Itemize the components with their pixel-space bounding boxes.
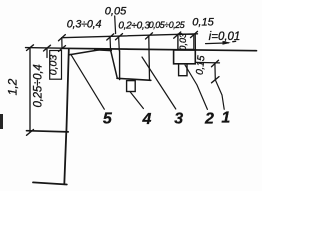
leg bottom line [33,182,67,184]
svg-text:0,03: 0,03 [47,55,59,76]
tick dim x=149 [146,33,153,39]
svg-text:1,2: 1,2 [6,78,20,95]
bottom reference line of block [27,131,69,132]
step diagonal face [111,51,117,78]
wedge tip thickening [95,48,111,51]
slope arrow i=0,01 [206,42,229,45]
block B right edge + extension up [148,37,151,80]
extension down at x=62 [61,38,63,49]
svg-text:0,15: 0,15 [192,17,214,29]
svg-text:0,3÷0,4: 0,3÷0,4 [67,19,102,31]
0,15 right dim: top ref [196,61,220,64]
0,15 right dim: tick bottom [212,77,220,83]
surface line [62,48,257,50]
leader 3 [142,57,176,109]
svg-text:i=0,01: i=0,01 [209,31,241,43]
leader 5 [71,54,105,109]
thin wedge layer 0,03 [69,50,99,55]
tick on surface ext at x=62 [59,46,66,52]
svg-text:0,15: 0,15 [195,55,208,76]
tick on surface ext at x=30 [27,45,34,51]
0,15 right dim: vertical line [214,63,216,80]
svg-text:0,25÷0,4: 0,25÷0,4 [33,64,45,107]
right block [174,50,196,64]
0,15 right dim: tick top [212,60,219,67]
extension right end down [194,34,196,50]
tick dim x=119 [116,34,123,40]
leader 2 [185,65,207,109]
box 0,03 left [50,51,62,80]
svg-text:5: 5 [103,111,113,128]
pointer from 0,05 label [114,16,117,34]
dimension line 0,25÷0,4 vertical [46,48,48,58]
tick dim x=110 [107,34,114,40]
right tab [179,64,187,76]
svg-text:0,05: 0,05 [105,6,127,18]
svg-text:1: 1 [221,110,230,127]
main left vertical face [66,50,68,132]
left extension line at surface level [26,47,63,50]
svg-text:0,03: 0,03 [178,33,188,51]
extension up at x=110 [109,36,112,51]
svg-text:0,2÷0,3: 0,2÷0,3 [118,21,150,32]
tab under block B [127,81,136,92]
svg-text:0,05÷0,25: 0,05÷0,25 [149,20,185,30]
block B bottom [117,78,151,80]
leg slanted down [64,132,66,185]
block B left edge [119,51,121,80]
svg-text:2: 2 [204,111,214,128]
right framed box 0,03 [178,34,194,49]
leader 1 [215,80,224,109]
edge smudge [0,114,3,129]
extension up at x=119 [118,37,121,51]
dimension line 1,2 vertical [29,48,31,132]
top dimension chain line [62,34,198,38]
tick on surface ext at x=47 [44,45,51,51]
svg-text:3: 3 [174,111,183,128]
svg-text:4: 4 [142,111,152,128]
tick dim x=177 [174,32,181,38]
tick dim x=194 [191,31,198,37]
leader 4 [130,92,143,109]
tick bottom of 1,2 [27,130,34,136]
tick dim x=62 [59,35,66,41]
